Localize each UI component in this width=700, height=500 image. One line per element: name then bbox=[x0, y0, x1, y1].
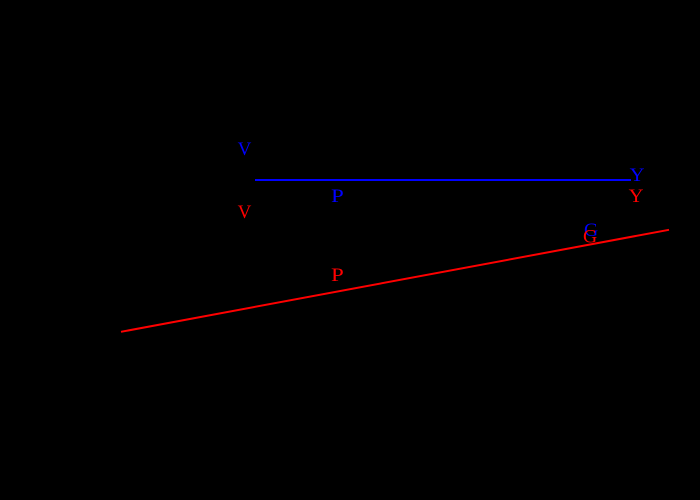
blue line (series V-P-Y) bbox=[255, 179, 631, 181]
red line (series V-P-G-Y) bbox=[121, 230, 669, 332]
svg-text:Y: Y bbox=[629, 186, 644, 207]
svg-text:G: G bbox=[583, 227, 597, 248]
svg-text:V: V bbox=[238, 202, 252, 223]
svg-text:P: P bbox=[331, 265, 344, 286]
svg-text:P: P bbox=[331, 186, 344, 207]
svg-text:Y: Y bbox=[630, 165, 645, 186]
svg-text:V: V bbox=[238, 139, 252, 160]
